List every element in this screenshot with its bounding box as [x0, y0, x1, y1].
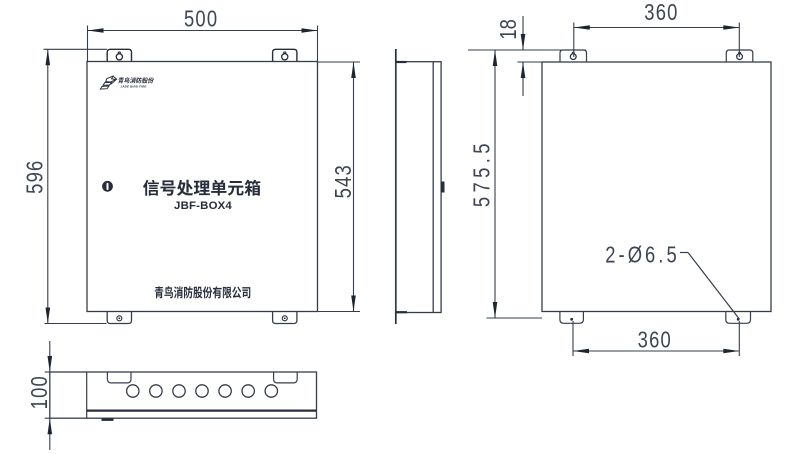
svg-text:JBF-BOX4: JBF-BOX4 — [174, 200, 232, 212]
svg-text:500: 500 — [184, 6, 218, 31]
svg-text:360: 360 — [644, 0, 678, 25]
svg-text:18: 18 — [496, 19, 521, 39]
svg-text:2-Ø6.5: 2-Ø6.5 — [605, 242, 679, 267]
svg-text:JADE BIRD FIRE: JADE BIRD FIRE — [121, 85, 147, 89]
svg-text:543: 543 — [331, 164, 356, 198]
svg-text:596: 596 — [23, 160, 48, 194]
svg-text:100: 100 — [27, 375, 52, 409]
svg-text:360: 360 — [638, 328, 672, 353]
svg-text:575.5: 575.5 — [470, 139, 495, 207]
